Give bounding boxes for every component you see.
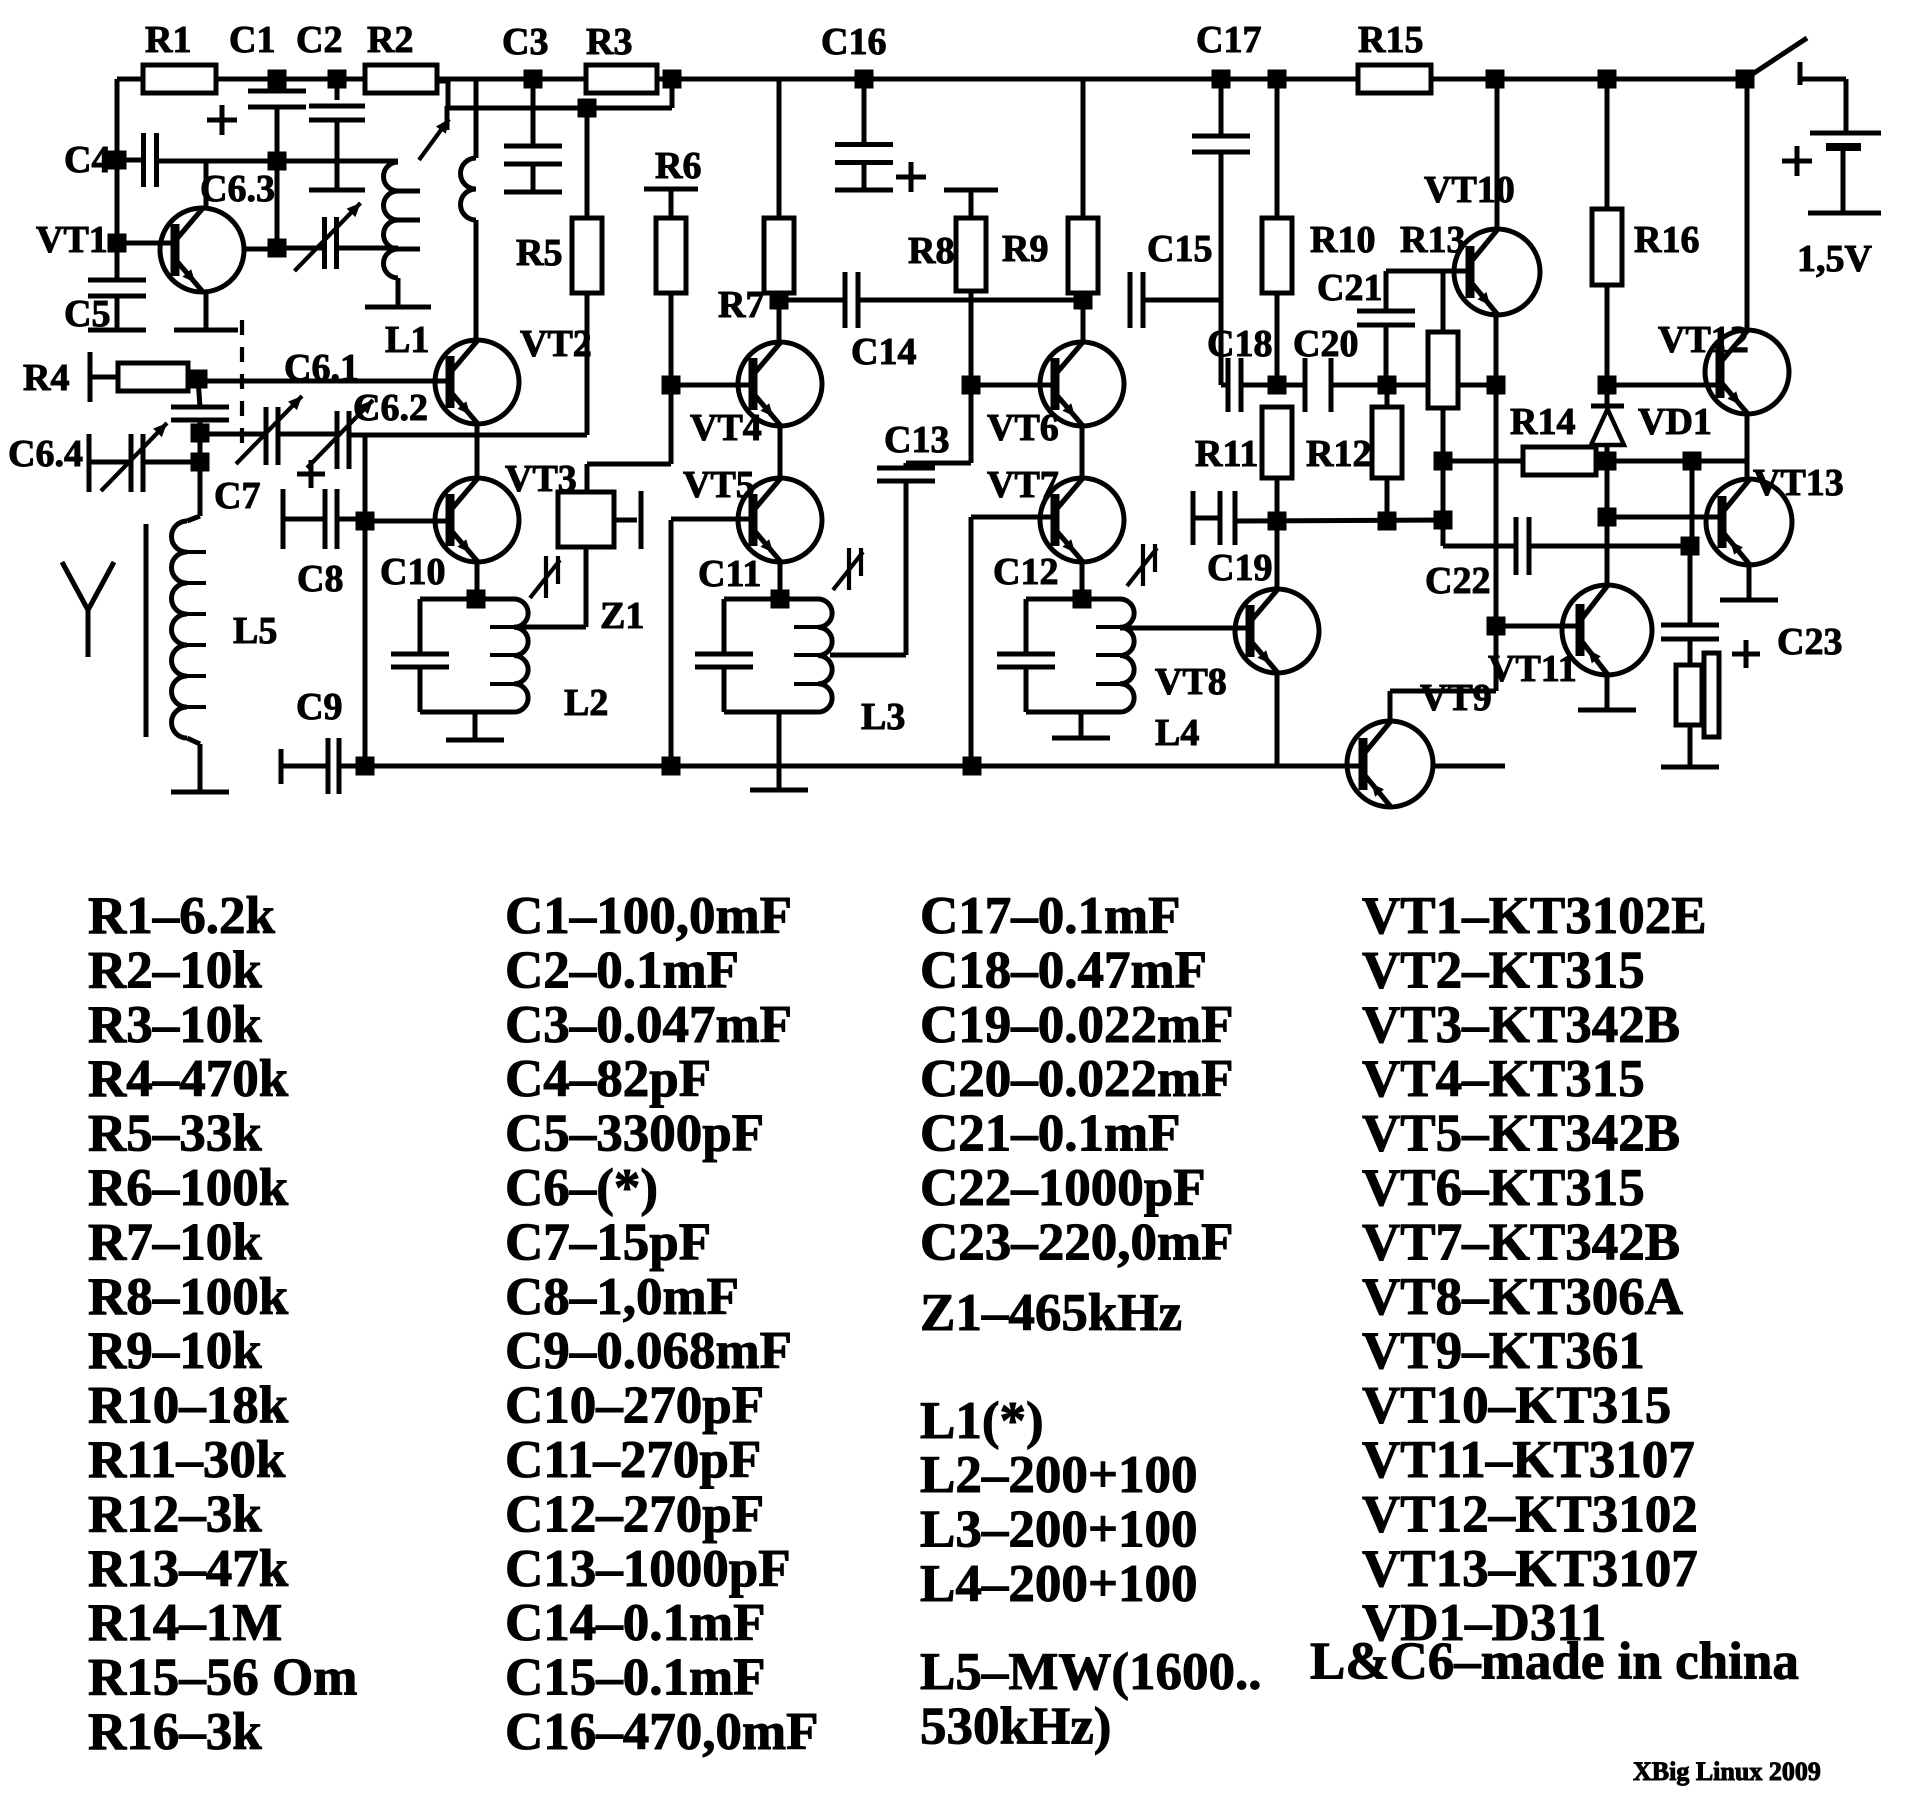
svg-text:VT1: VT1 — [36, 219, 108, 261]
svg-text:C2–0.1mF: C2–0.1mF — [505, 941, 739, 999]
svg-text:C6.1: C6.1 — [284, 347, 359, 389]
svg-text:VT13–KT3107: VT13–KT3107 — [1362, 1540, 1698, 1598]
svg-text:R1: R1 — [145, 19, 191, 61]
svg-text:C16: C16 — [821, 21, 886, 63]
svg-text:R16–3k: R16–3k — [88, 1703, 262, 1761]
svg-text:C12: C12 — [993, 551, 1058, 593]
svg-text:R3–10k: R3–10k — [88, 996, 262, 1054]
svg-text:L5–MW(1600..: L5–MW(1600.. — [920, 1643, 1262, 1701]
svg-text:VT12: VT12 — [1658, 319, 1749, 361]
svg-text:R4–470k: R4–470k — [88, 1050, 289, 1108]
svg-text:C20: C20 — [1293, 323, 1358, 365]
svg-text:VT1–KT3102E: VT1–KT3102E — [1362, 887, 1707, 945]
svg-text:L2–200+100: L2–200+100 — [920, 1446, 1198, 1504]
svg-text:VT9: VT9 — [1420, 677, 1492, 719]
svg-text:R1–6.2k: R1–6.2k — [88, 887, 276, 945]
svg-text:VT8: VT8 — [1155, 661, 1227, 703]
svg-text:R16: R16 — [1634, 219, 1699, 261]
svg-text:C21: C21 — [1317, 267, 1382, 309]
svg-text:VT7–KT342B: VT7–KT342B — [1362, 1213, 1680, 1271]
svg-text:R14: R14 — [1510, 401, 1575, 443]
svg-text:C5: C5 — [64, 293, 110, 335]
svg-text:C11: C11 — [698, 553, 761, 595]
svg-text:C17: C17 — [1196, 19, 1261, 61]
svg-text:R8–100k: R8–100k — [88, 1268, 289, 1326]
svg-text:R8: R8 — [908, 230, 954, 272]
svg-text:VT7: VT7 — [987, 464, 1059, 506]
svg-text:C18: C18 — [1207, 323, 1272, 365]
svg-text:VT5: VT5 — [683, 464, 755, 506]
svg-text:VD1: VD1 — [1638, 401, 1712, 443]
svg-text:R13: R13 — [1400, 219, 1465, 261]
svg-text:C4–82pF: C4–82pF — [505, 1050, 711, 1108]
svg-text:VT3: VT3 — [505, 458, 577, 500]
svg-text:C6.2: C6.2 — [353, 387, 428, 429]
svg-text:VT11: VT11 — [1488, 648, 1577, 690]
svg-text:C14: C14 — [851, 331, 916, 373]
svg-text:R14–1M: R14–1M — [88, 1594, 282, 1652]
svg-text:Z1: Z1 — [600, 595, 644, 637]
svg-text:C17–0.1mF: C17–0.1mF — [920, 887, 1181, 945]
svg-text:L3–200+100: L3–200+100 — [920, 1501, 1198, 1559]
svg-text:C16–470,0mF: C16–470,0mF — [505, 1703, 819, 1761]
svg-text:VT12–KT3102: VT12–KT3102 — [1362, 1485, 1698, 1543]
svg-text:VT13: VT13 — [1753, 462, 1844, 504]
svg-text:R4: R4 — [23, 357, 69, 399]
svg-text:L5: L5 — [233, 610, 277, 652]
svg-text:C15–0.1mF: C15–0.1mF — [505, 1649, 766, 1707]
svg-text:C12–270pF: C12–270pF — [505, 1485, 764, 1543]
svg-text:C23: C23 — [1777, 621, 1842, 663]
svg-text:L3: L3 — [861, 696, 905, 738]
svg-text:C1–100,0mF: C1–100,0mF — [505, 887, 792, 945]
svg-text:R5–33k: R5–33k — [88, 1105, 262, 1163]
svg-text:R6: R6 — [655, 145, 701, 187]
svg-text:R5: R5 — [516, 232, 562, 274]
svg-text:VT2: VT2 — [520, 323, 592, 365]
svg-text:R2: R2 — [367, 19, 413, 61]
svg-text:VT4–KT315: VT4–KT315 — [1362, 1050, 1645, 1108]
svg-text:VT4: VT4 — [690, 407, 762, 449]
svg-text:VT3–KT342B: VT3–KT342B — [1362, 996, 1680, 1054]
svg-text:C23–220,0mF: C23–220,0mF — [920, 1213, 1234, 1271]
svg-text:L1: L1 — [385, 319, 429, 361]
svg-text:R6–100k: R6–100k — [88, 1159, 289, 1217]
svg-text:VT11–KT3107: VT11–KT3107 — [1362, 1431, 1695, 1489]
svg-text:R10–18k: R10–18k — [88, 1377, 289, 1435]
svg-text:VT9–KT361: VT9–KT361 — [1362, 1322, 1645, 1380]
svg-text:C6.3: C6.3 — [200, 168, 275, 210]
svg-text:R12: R12 — [1306, 433, 1371, 475]
svg-text:VT5–KT342B: VT5–KT342B — [1362, 1105, 1680, 1163]
svg-text:C5–3300pF: C5–3300pF — [505, 1105, 764, 1163]
svg-text:R15–56 Om: R15–56 Om — [88, 1649, 357, 1707]
svg-text:1,5V: 1,5V — [1797, 238, 1873, 280]
svg-text:L4: L4 — [1155, 712, 1199, 754]
svg-text:R11–30k: R11–30k — [88, 1431, 286, 1489]
svg-text:C10–270pF: C10–270pF — [505, 1377, 764, 1435]
svg-text:C10: C10 — [380, 551, 445, 593]
svg-text:R15: R15 — [1358, 19, 1423, 61]
svg-text:R10: R10 — [1310, 219, 1375, 261]
svg-text:R3: R3 — [586, 21, 632, 63]
svg-text:L1(*): L1(*) — [920, 1392, 1044, 1450]
svg-text:C8–1,0mF: C8–1,0mF — [505, 1268, 739, 1326]
svg-text:C22–1000pF: C22–1000pF — [920, 1159, 1206, 1217]
svg-text:R11: R11 — [1195, 433, 1258, 475]
svg-text:VT6–KT315: VT6–KT315 — [1362, 1159, 1645, 1217]
svg-text:C18–0.47mF: C18–0.47mF — [920, 941, 1207, 999]
svg-text:C2: C2 — [296, 19, 342, 61]
svg-text:530kHz): 530kHz) — [920, 1698, 1111, 1756]
svg-text:VT10: VT10 — [1424, 169, 1515, 211]
svg-text:C3–0.047mF: C3–0.047mF — [505, 996, 792, 1054]
svg-text:L2: L2 — [564, 682, 608, 724]
svg-text:R7–10k: R7–10k — [88, 1213, 262, 1271]
svg-text:VT8–KT306A: VT8–KT306A — [1362, 1268, 1683, 1326]
svg-text:C11–270pF: C11–270pF — [505, 1431, 761, 1489]
svg-text:C13–1000pF: C13–1000pF — [505, 1540, 791, 1598]
svg-text:XBig Linux 2009: XBig Linux 2009 — [1633, 1757, 1821, 1786]
svg-text:C21–0.1mF: C21–0.1mF — [920, 1105, 1181, 1163]
svg-text:Z1–465kHz: Z1–465kHz — [920, 1284, 1182, 1342]
svg-text:R2–10k: R2–10k — [88, 941, 262, 999]
svg-text:L&C6–made in china: L&C6–made in china — [1310, 1632, 1799, 1690]
svg-text:C1: C1 — [229, 19, 275, 61]
svg-text:VT10–KT315: VT10–KT315 — [1362, 1377, 1671, 1435]
svg-text:C6.4: C6.4 — [8, 433, 83, 475]
svg-text:C9: C9 — [296, 686, 342, 728]
svg-text:C6–(*): C6–(*) — [505, 1159, 658, 1217]
svg-text:R12–3k: R12–3k — [88, 1485, 262, 1543]
svg-text:R9–10k: R9–10k — [88, 1322, 262, 1380]
svg-text:L4–200+100: L4–200+100 — [920, 1555, 1198, 1613]
svg-text:C20–0.022mF: C20–0.022mF — [920, 1050, 1234, 1108]
svg-text:C7–15pF: C7–15pF — [505, 1213, 711, 1271]
svg-text:C9–0.068mF: C9–0.068mF — [505, 1322, 792, 1380]
svg-text:C14–0.1mF: C14–0.1mF — [505, 1594, 766, 1652]
svg-text:VT2–KT315: VT2–KT315 — [1362, 941, 1645, 999]
svg-text:C3: C3 — [502, 21, 548, 63]
svg-text:C15: C15 — [1147, 228, 1212, 270]
svg-text:C19–0.022mF: C19–0.022mF — [920, 996, 1234, 1054]
svg-text:R13–47k: R13–47k — [88, 1540, 289, 1598]
svg-text:C22: C22 — [1425, 560, 1490, 602]
svg-text:C13: C13 — [884, 419, 949, 461]
svg-text:C7: C7 — [214, 475, 260, 517]
svg-text:C4: C4 — [64, 139, 110, 181]
svg-text:R9: R9 — [1002, 228, 1048, 270]
svg-text:C19: C19 — [1207, 547, 1272, 589]
svg-text:VT6: VT6 — [987, 407, 1059, 449]
svg-text:R7: R7 — [718, 284, 764, 326]
svg-text:C8: C8 — [297, 558, 343, 600]
